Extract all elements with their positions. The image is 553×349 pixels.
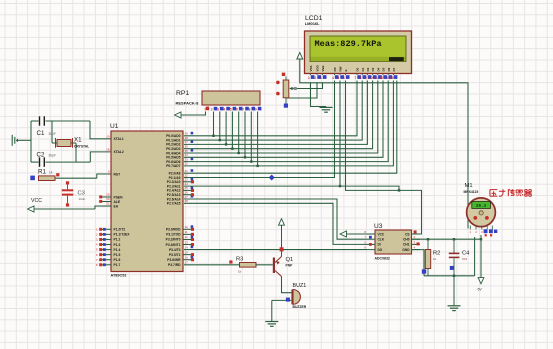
svg-text:VCC: VCC xyxy=(378,232,385,236)
svg-text:3: 3 xyxy=(320,76,322,80)
svg-text:5: 5 xyxy=(338,76,340,80)
svg-text:C3: C3 xyxy=(78,191,85,197)
svg-text:C4: C4 xyxy=(462,251,470,257)
svg-text:8: 8 xyxy=(364,230,366,234)
svg-text:9: 9 xyxy=(255,108,257,112)
svg-text:ADC0832: ADC0832 xyxy=(375,257,390,261)
svg-text:3: 3 xyxy=(217,108,219,112)
svg-text:D4: D4 xyxy=(376,67,380,71)
svg-text:1k: 1k xyxy=(238,270,242,274)
svg-text:PSEN: PSEN xyxy=(114,195,124,199)
svg-text:31: 31 xyxy=(106,202,110,206)
svg-text:P3.0/RXD: P3.0/RXD xyxy=(166,228,181,232)
svg-text:12: 12 xyxy=(380,76,384,80)
svg-text:U1: U1 xyxy=(110,123,119,130)
svg-text:19: 19 xyxy=(106,134,110,138)
svg-text:ALE: ALE xyxy=(114,200,121,204)
svg-text:P3.3/INT1: P3.3/INT1 xyxy=(166,243,181,247)
svg-text:R3: R3 xyxy=(236,257,243,263)
svg-text:P1.5: P1.5 xyxy=(114,253,121,257)
svg-text:P3.5/T1: P3.5/T1 xyxy=(169,253,181,257)
svg-text:7: 7 xyxy=(355,76,357,80)
svg-text:10: 10 xyxy=(185,225,189,229)
svg-text:E: E xyxy=(344,69,348,71)
svg-text:10uF: 10uF xyxy=(79,197,86,201)
svg-text:-5V: -5V xyxy=(477,288,483,292)
svg-text:DO: DO xyxy=(378,248,383,252)
svg-text:VSS: VSS xyxy=(309,65,313,71)
svg-text:30: 30 xyxy=(106,197,110,201)
svg-text:14: 14 xyxy=(390,76,394,80)
svg-text:C1: C1 xyxy=(37,130,45,137)
svg-text:29.3: 29.3 xyxy=(476,205,487,209)
svg-text:RP1: RP1 xyxy=(176,90,189,97)
svg-text:3: 3 xyxy=(96,238,98,242)
svg-text:8: 8 xyxy=(96,263,98,267)
svg-text:PNP: PNP xyxy=(286,263,294,267)
svg-text:3: 3 xyxy=(414,240,416,244)
svg-text:BUZ1: BUZ1 xyxy=(293,283,307,289)
svg-text:4: 4 xyxy=(414,246,416,250)
svg-text:D0: D0 xyxy=(356,67,360,71)
svg-text:CRYSTAL: CRYSTAL xyxy=(74,145,89,149)
svg-text:14: 14 xyxy=(185,245,189,249)
svg-text:3: 3 xyxy=(481,230,483,234)
svg-text:8: 8 xyxy=(360,76,362,80)
svg-text:DI: DI xyxy=(378,243,381,247)
svg-text:4: 4 xyxy=(223,108,225,112)
svg-text:1: 1 xyxy=(469,230,471,234)
svg-text:P3.4/T0: P3.4/T0 xyxy=(169,248,181,252)
svg-text:P3.1/TXD: P3.1/TXD xyxy=(166,233,181,237)
svg-text:CS: CS xyxy=(405,232,409,236)
svg-text:29: 29 xyxy=(106,193,110,197)
svg-text:2: 2 xyxy=(211,108,213,112)
svg-text:P1.1/T2EX: P1.1/T2EX xyxy=(114,233,131,237)
svg-text:6: 6 xyxy=(364,246,366,250)
svg-text:D6: D6 xyxy=(387,67,391,71)
svg-text:D1: D1 xyxy=(361,67,365,71)
svg-text:P3.7/RD: P3.7/RD xyxy=(168,263,181,267)
svg-text:P2.7/A15: P2.7/A15 xyxy=(167,202,181,206)
svg-text:EA: EA xyxy=(114,204,119,208)
svg-text:12: 12 xyxy=(185,235,189,239)
svg-text:CH1: CH1 xyxy=(403,243,410,247)
svg-text:VCC: VCC xyxy=(31,198,42,204)
svg-text:13: 13 xyxy=(385,76,389,80)
svg-text:5: 5 xyxy=(364,240,366,244)
svg-text:BUZZER: BUZZER xyxy=(293,305,307,309)
svg-text:Meas:829.7kPa: Meas:829.7kPa xyxy=(315,39,382,49)
svg-text:XTAL1: XTAL1 xyxy=(114,137,124,141)
svg-text:Q1: Q1 xyxy=(286,257,294,263)
svg-text:104: 104 xyxy=(462,257,467,261)
svg-text:17: 17 xyxy=(185,261,189,265)
svg-text:6: 6 xyxy=(343,76,345,80)
svg-text:30pF: 30pF xyxy=(49,153,56,157)
svg-text:28: 28 xyxy=(185,199,189,203)
svg-text:7: 7 xyxy=(364,235,366,239)
svg-text:P1.2: P1.2 xyxy=(114,238,121,242)
svg-text:D7: D7 xyxy=(392,67,396,71)
svg-text:D3: D3 xyxy=(371,67,375,71)
svg-text:11: 11 xyxy=(185,230,188,234)
svg-text:VEE: VEE xyxy=(321,65,325,71)
svg-text:XTAL2: XTAL2 xyxy=(114,150,124,154)
svg-text:RST: RST xyxy=(114,172,121,176)
svg-text:D2: D2 xyxy=(366,67,370,71)
svg-text:AT89C52: AT89C52 xyxy=(111,274,127,278)
svg-text:15: 15 xyxy=(185,250,189,254)
svg-text:D5: D5 xyxy=(382,67,386,71)
svg-text:MPX4115: MPX4115 xyxy=(464,190,479,194)
svg-text:R2: R2 xyxy=(433,251,440,257)
svg-text:LM016L: LM016L xyxy=(305,21,320,26)
svg-text:VDD: VDD xyxy=(316,64,320,71)
svg-text:P3.6/WR: P3.6/WR xyxy=(167,258,181,262)
svg-text:1: 1 xyxy=(308,76,310,80)
svg-text:P1.0/T2: P1.0/T2 xyxy=(114,228,126,232)
svg-text:CLK: CLK xyxy=(378,238,385,242)
svg-text:18: 18 xyxy=(106,148,110,152)
svg-text:P0.7/AD7: P0.7/AD7 xyxy=(166,164,180,168)
svg-text:1: 1 xyxy=(96,227,98,231)
svg-text:RS: RS xyxy=(333,67,337,71)
svg-text:GND: GND xyxy=(402,248,410,252)
svg-text:R1: R1 xyxy=(38,169,46,176)
svg-text:2: 2 xyxy=(96,232,98,236)
svg-text:2: 2 xyxy=(414,235,416,239)
svg-text:11: 11 xyxy=(375,76,379,80)
svg-text:32: 32 xyxy=(185,162,189,166)
svg-text:9: 9 xyxy=(365,76,367,80)
svg-text:9: 9 xyxy=(108,170,110,174)
svg-text:7: 7 xyxy=(96,258,98,262)
svg-text:1k: 1k xyxy=(433,257,437,261)
svg-text:P1.7: P1.7 xyxy=(114,263,121,267)
svg-text:13: 13 xyxy=(185,240,189,244)
svg-text:2: 2 xyxy=(315,76,317,80)
svg-text:2: 2 xyxy=(475,230,477,234)
svg-text:P1.3: P1.3 xyxy=(114,243,121,247)
svg-text:5: 5 xyxy=(230,108,232,112)
svg-text:RESPACK-8: RESPACK-8 xyxy=(176,101,200,106)
svg-text:C2: C2 xyxy=(37,151,45,158)
svg-text:M1: M1 xyxy=(465,183,473,189)
svg-text:CH0: CH0 xyxy=(403,238,410,242)
svg-text:P1.6: P1.6 xyxy=(114,258,121,262)
svg-text:4: 4 xyxy=(332,76,334,80)
svg-text:6: 6 xyxy=(96,253,98,257)
svg-text:10: 10 xyxy=(369,76,373,80)
svg-text:RW: RW xyxy=(339,66,343,71)
svg-text:P3.2/INT0: P3.2/INT0 xyxy=(166,238,181,242)
svg-text:1k: 1k xyxy=(49,171,53,175)
svg-text:U3: U3 xyxy=(374,223,383,230)
svg-text:X1: X1 xyxy=(74,137,82,144)
svg-text:30pF: 30pF xyxy=(49,132,56,136)
svg-text:P1.4: P1.4 xyxy=(114,248,121,252)
svg-text:4: 4 xyxy=(96,243,98,247)
svg-text:16: 16 xyxy=(185,256,189,260)
svg-text:5: 5 xyxy=(96,248,98,252)
svg-text:8: 8 xyxy=(249,108,251,112)
svg-text:6: 6 xyxy=(236,108,238,112)
svg-text:7: 7 xyxy=(242,108,244,112)
